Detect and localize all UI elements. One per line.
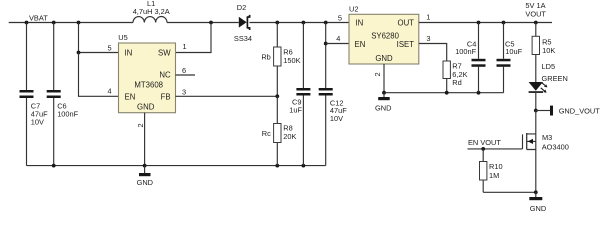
node U2 gnd junction: [382, 91, 386, 95]
wire U5 NC pin6 stub: [176, 74, 196, 76]
node FB junction: [275, 94, 279, 98]
wire M3 source to ground: [535, 150, 537, 193]
transistor M3 AO3400: [523, 133, 536, 150]
node VBAT/U5 riser junction: [77, 21, 81, 25]
diode D2 SS34: [239, 15, 250, 30]
terminal GND_VOUT tag: [536, 106, 553, 116]
node C12/EN riser junction: [324, 21, 328, 25]
svg-text:3: 3: [182, 87, 186, 96]
svg-text:Rc: Rc: [262, 129, 271, 138]
svg-text:1uF: 1uF: [289, 106, 302, 115]
svg-text:5: 5: [108, 43, 112, 52]
svg-text:EN VOUT: EN VOUT: [468, 138, 501, 147]
node Rc/gnd rail junction: [275, 164, 279, 168]
svg-text:GREEN: GREEN: [542, 74, 568, 83]
wire U2 ground rail: [384, 92, 504, 94]
node SW riser junction: [209, 21, 213, 25]
svg-text:4: 4: [336, 34, 340, 43]
svg-text:Rd: Rd: [452, 78, 461, 87]
svg-text:IN: IN: [356, 18, 364, 27]
resistor R6 Rb: [274, 23, 281, 97]
svg-text:EN: EN: [355, 40, 366, 49]
ground symbol (M3): [529, 192, 542, 200]
wire U2 EN pin4: [326, 43, 349, 45]
wire M3 drain: [535, 111, 537, 134]
svg-text:10K: 10K: [542, 46, 555, 55]
node LED cathode junction: [534, 109, 538, 113]
svg-text:2: 2: [373, 72, 382, 76]
svg-text:FB: FB: [161, 93, 171, 102]
node C4 gnd junction: [477, 91, 481, 95]
svg-text:Rb: Rb: [261, 52, 270, 61]
wire main ground rail: [27, 165, 326, 167]
wire R10 ground rail: [483, 191, 536, 193]
svg-text:1M: 1M: [489, 171, 499, 180]
svg-text:4,7uH 3,2A: 4,7uH 3,2A: [133, 7, 170, 16]
wire U2 ISET pin3: [419, 44, 447, 62]
svg-text:3: 3: [426, 34, 430, 43]
svg-text:5: 5: [338, 14, 342, 23]
capacitor C12: [319, 23, 333, 166]
svg-text:EN: EN: [125, 93, 136, 102]
svg-text:GND: GND: [137, 178, 153, 187]
IC U5 MT3608 body: [119, 43, 176, 113]
wire U2 GND pin2 stub: [383, 64, 385, 93]
svg-text:AO3400: AO3400: [542, 143, 569, 152]
svg-text:GND: GND: [375, 54, 393, 63]
node U5 pin2/gnd rail junction: [143, 164, 147, 168]
node R10 junction: [481, 147, 485, 151]
node C5 junction: [502, 21, 506, 25]
resistor R10: [480, 149, 487, 192]
svg-text:NC: NC: [159, 71, 171, 80]
svg-text:SS34: SS34: [234, 34, 252, 43]
node U2 EN tee: [324, 42, 328, 46]
wire U2 OUT rail to VOUT: [419, 22, 552, 24]
node C6/gnd rail junction: [52, 164, 56, 168]
resistor R5: [532, 23, 539, 83]
ground symbol (U2): [378, 93, 390, 101]
svg-text:100nF: 100nF: [455, 47, 476, 56]
svg-text:GND: GND: [375, 104, 391, 113]
svg-text:10V: 10V: [330, 114, 343, 123]
wire U5 GND pin2 stub: [144, 113, 146, 166]
resistor R8 Rc: [274, 96, 281, 165]
wire L1 to D2 anode: [167, 22, 239, 24]
svg-text:10uF: 10uF: [505, 47, 522, 56]
inductor L1: [133, 17, 167, 23]
wire U5 IN pin5: [79, 23, 119, 53]
svg-text:VBAT: VBAT: [29, 14, 48, 23]
svg-text:GND: GND: [137, 102, 155, 111]
wire D2 cathode to U2 IN: [249, 22, 349, 24]
svg-text:1: 1: [183, 42, 187, 51]
svg-text:R10: R10: [489, 162, 503, 171]
node Rb junction: [275, 21, 279, 25]
svg-text:GND: GND: [530, 204, 546, 212]
node U5 IN tee: [77, 51, 81, 55]
svg-text:20K: 20K: [283, 132, 296, 141]
wire VBAT top rail: [9, 22, 133, 24]
svg-text:LD5: LD5: [542, 62, 556, 71]
svg-text:IN: IN: [125, 49, 133, 58]
svg-text:MT3608: MT3608: [134, 81, 163, 90]
svg-text:6: 6: [182, 66, 186, 75]
svg-text:U5: U5: [118, 33, 127, 42]
IC U2 SY6280 body: [349, 14, 419, 64]
capacitor C4: [472, 23, 486, 93]
node VBAT/C7 junction: [25, 21, 29, 25]
svg-text:1: 1: [426, 12, 430, 21]
svg-text:10V: 10V: [31, 118, 44, 127]
svg-text:U2: U2: [349, 4, 358, 13]
node VOUT junction: [534, 21, 538, 25]
node C4 junction: [477, 21, 481, 25]
svg-text:D2: D2: [237, 3, 246, 12]
wire U5 FB pin3 to Rb/Rc node: [176, 95, 278, 97]
svg-text:M3: M3: [542, 133, 552, 142]
svg-text:150K: 150K: [283, 56, 300, 65]
svg-text:GND_VOUT: GND_VOUT: [559, 106, 600, 115]
capacitor C7: [20, 23, 34, 166]
svg-text:2: 2: [136, 123, 145, 127]
ground symbol (main): [139, 166, 151, 177]
capacitor C9: [296, 23, 310, 166]
node VBAT/C6 junction: [52, 21, 56, 25]
svg-text:VOUT: VOUT: [525, 9, 546, 18]
node M3 source gnd junction: [534, 190, 538, 194]
svg-text:4: 4: [108, 87, 112, 96]
wire U5 SW pin1 riser: [176, 23, 212, 53]
svg-text:100nF: 100nF: [57, 110, 78, 119]
capacitor C5: [497, 23, 511, 93]
wire U5 EN pin4: [79, 53, 119, 97]
svg-text:OUT: OUT: [398, 18, 415, 27]
node C9/gnd rail junction: [302, 164, 306, 168]
capacitor C6: [47, 23, 61, 166]
svg-text:ISET: ISET: [397, 40, 415, 49]
wire EN VOUT to gate: [468, 148, 523, 150]
svg-text:SY6280: SY6280: [371, 32, 399, 41]
LED LD5: [529, 82, 548, 111]
svg-text:SW: SW: [158, 49, 171, 58]
node R7 gnd junction: [445, 91, 449, 95]
node C9 junction: [302, 21, 306, 25]
resistor R7: [443, 61, 450, 93]
